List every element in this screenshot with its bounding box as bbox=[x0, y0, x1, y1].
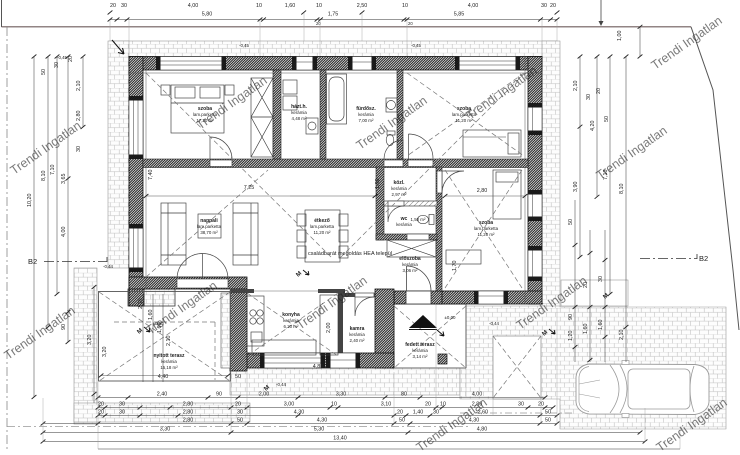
door bath from hall bbox=[384, 140, 403, 167]
outer wall: kitchen wing south bbox=[230, 353, 394, 368]
svg-text:20: 20 bbox=[98, 410, 104, 416]
door vestibule to hall bbox=[407, 234, 429, 240]
svg-text:-0,44: -0,44 bbox=[276, 382, 287, 387]
svg-text:11,20 m²: 11,20 m² bbox=[477, 232, 495, 237]
svg-text:7,10: 7,10 bbox=[50, 165, 56, 176]
desk mid-right bbox=[446, 250, 481, 264]
svg-text:1,40: 1,40 bbox=[413, 410, 424, 416]
small left bottom verticals bbox=[143, 294, 163, 382]
svg-text:5,30: 5,30 bbox=[314, 427, 325, 433]
bottom chains bbox=[43, 398, 680, 450]
svg-text:3,06 m²: 3,06 m² bbox=[403, 268, 418, 273]
svg-text:4,80: 4,80 bbox=[313, 364, 324, 370]
property boundary top line bbox=[2, 26, 692, 28]
svg-text:2,80: 2,80 bbox=[76, 111, 82, 122]
covered terrace floor (white) bbox=[394, 304, 466, 368]
dash line to car bbox=[460, 412, 574, 414]
svg-text:2,10: 2,10 bbox=[166, 336, 172, 347]
svg-text:11,20 m²: 11,20 m² bbox=[313, 230, 331, 235]
svg-text:30: 30 bbox=[76, 146, 82, 152]
svg-text:kerámia: kerámia bbox=[412, 348, 428, 353]
window bedroom2 east bbox=[528, 103, 542, 135]
svg-text:10: 10 bbox=[402, 3, 408, 9]
interior wall: kitchen / pantry bbox=[338, 293, 343, 357]
svg-text:családbarát megoldás HEA telep: családbarát megoldás HEA települ bbox=[308, 251, 392, 257]
outer wall: south of right wing bbox=[436, 291, 542, 304]
svg-text:20: 20 bbox=[316, 21, 321, 26]
north arrow on covered terrace bbox=[409, 315, 437, 328]
svg-text:38,70 m²: 38,70 m² bbox=[200, 230, 218, 235]
dining table bbox=[305, 210, 340, 262]
outer wall: north bbox=[129, 57, 542, 71]
svg-text:4,00: 4,00 bbox=[188, 3, 199, 9]
opening dining-kitchen bbox=[254, 289, 318, 293]
svg-text:13,40: 13,40 bbox=[333, 436, 347, 442]
svg-text:3,30: 3,30 bbox=[160, 427, 171, 433]
svg-text:4,00: 4,00 bbox=[468, 3, 479, 9]
svg-text:3,10: 3,10 bbox=[381, 402, 392, 408]
svg-text:kerámia: kerámia bbox=[358, 112, 374, 117]
in-plan dim lines bbox=[101, 196, 525, 376]
svg-text:20: 20 bbox=[98, 402, 104, 408]
window bath north bbox=[348, 57, 376, 71]
svg-text:2,00: 2,00 bbox=[259, 392, 270, 398]
terrace pillar bbox=[438, 354, 447, 364]
wardrobe with X bbox=[251, 78, 273, 157]
outer wall: west bbox=[129, 57, 143, 290]
bathtub bbox=[327, 74, 347, 124]
svg-text:50: 50 bbox=[545, 418, 551, 424]
window utility north bbox=[292, 57, 317, 71]
window bedroom1 north bbox=[156, 57, 226, 71]
property boundary left vertical bbox=[1, 0, 3, 27]
svg-text:1,75: 1,75 bbox=[328, 12, 339, 18]
svg-text:2,80: 2,80 bbox=[183, 402, 194, 408]
svg-text:90: 90 bbox=[216, 392, 222, 398]
svg-text:4,80: 4,80 bbox=[477, 427, 488, 433]
svg-text:-0,45: -0,45 bbox=[239, 43, 250, 48]
svg-text:-0,44: -0,44 bbox=[103, 264, 114, 269]
level marks bbox=[57, 43, 500, 387]
kitchen lower counter bbox=[252, 340, 316, 355]
brick paving: court + driveway field bbox=[460, 306, 726, 429]
svg-text:2,80: 2,80 bbox=[183, 410, 194, 416]
svg-text:10: 10 bbox=[440, 402, 446, 408]
window midroom east 2 bbox=[528, 246, 542, 281]
svg-text:2,10: 2,10 bbox=[619, 330, 625, 341]
svg-text:10: 10 bbox=[331, 402, 337, 408]
svg-text:3,90: 3,90 bbox=[573, 182, 579, 193]
svg-text:1,60: 1,60 bbox=[583, 324, 589, 335]
coffee table bbox=[198, 214, 221, 238]
bed 2 top-right bbox=[463, 130, 521, 157]
svg-text:30: 30 bbox=[586, 94, 592, 100]
inner leaf lines bbox=[129, 72, 542, 74]
svg-text:4,20: 4,20 bbox=[590, 121, 596, 132]
svg-text:3,20: 3,20 bbox=[102, 347, 108, 358]
svg-text:30: 30 bbox=[433, 410, 439, 416]
svg-text:3,65: 3,65 bbox=[61, 174, 67, 185]
kitchen counters bbox=[247, 296, 264, 346]
svg-text:3,14 m²: 3,14 m² bbox=[413, 354, 428, 359]
outer wall: pantry west / terrace wall bbox=[375, 289, 394, 368]
svg-text:20: 20 bbox=[235, 402, 241, 408]
svg-text:2,80: 2,80 bbox=[183, 418, 194, 424]
svg-text:5,85: 5,85 bbox=[454, 12, 465, 18]
svg-text:kerámia: kerámia bbox=[391, 186, 407, 191]
svg-text:30: 30 bbox=[518, 402, 524, 408]
svg-text:1,20: 1,20 bbox=[568, 331, 574, 342]
outer wall: east bbox=[528, 57, 542, 305]
bed 1 bbox=[171, 85, 224, 133]
french door living south bbox=[177, 254, 228, 289]
interior wall: bath / bedroom2 bbox=[397, 70, 403, 159]
svg-text:2,00: 2,00 bbox=[326, 323, 332, 334]
svg-text:10: 10 bbox=[256, 3, 262, 9]
svg-text:50: 50 bbox=[399, 418, 405, 424]
window bedroom2 north bbox=[455, 57, 520, 71]
white patch above driveway bbox=[561, 280, 628, 306]
door bedroom1 bbox=[210, 137, 232, 167]
outer wall: living room south bbox=[129, 277, 247, 289]
svg-text:30: 30 bbox=[119, 410, 125, 416]
svg-text:30: 30 bbox=[54, 62, 60, 68]
svg-text:2,80: 2,80 bbox=[477, 188, 488, 194]
opening hall top bbox=[384, 166, 408, 168]
svg-text:30: 30 bbox=[121, 3, 127, 9]
bath sink + wc bbox=[387, 101, 396, 110]
property stake leader bbox=[600, 0, 602, 25]
outer wall: kitchen wing west bbox=[230, 291, 247, 371]
svg-text:20: 20 bbox=[596, 88, 602, 94]
svg-text:2,10: 2,10 bbox=[76, 81, 82, 92]
interior wall: utility / bath bbox=[320, 70, 326, 159]
door wc bbox=[388, 201, 404, 222]
brick paving: band under open terrace bbox=[74, 403, 250, 422]
property dash line bottom bbox=[7, 426, 470, 428]
covered terrace edge bbox=[465, 304, 467, 368]
top-left eaves arrow bbox=[112, 40, 124, 54]
interior wall: wc north bbox=[384, 201, 437, 206]
brick paving: left eaves band bbox=[108, 41, 129, 268]
svg-text:7,25: 7,25 bbox=[244, 185, 255, 191]
vestibule wardrobe X bbox=[387, 240, 436, 257]
interior wall: dining / hall bbox=[376, 167, 384, 240]
svg-text:5,80: 5,80 bbox=[202, 12, 213, 18]
svg-text:4,48 m²: 4,48 m² bbox=[292, 116, 307, 121]
window kitchen south bbox=[260, 353, 325, 368]
svg-text:50: 50 bbox=[604, 116, 610, 122]
svg-text:50: 50 bbox=[235, 374, 241, 380]
svg-text:90: 90 bbox=[568, 314, 574, 320]
svg-text:3,00: 3,00 bbox=[284, 402, 295, 408]
white walkway in paving bbox=[493, 336, 541, 399]
svg-text:20: 20 bbox=[425, 402, 431, 408]
property boundary left dash-dot bbox=[6, 27, 8, 452]
sofa 1 bbox=[161, 203, 186, 265]
brick paving: band under kitchen wing bbox=[230, 367, 460, 395]
right chains bbox=[575, 27, 640, 362]
svg-text:kerámia: kerámia bbox=[291, 110, 307, 115]
svg-text:20: 20 bbox=[550, 3, 556, 9]
svg-text:20: 20 bbox=[397, 410, 403, 416]
svg-text:lam.parketta: lam.parketta bbox=[310, 224, 335, 229]
svg-text:4,30: 4,30 bbox=[294, 410, 305, 416]
eaves band SW corner bbox=[128, 289, 175, 306]
svg-text:1,70: 1,70 bbox=[452, 261, 458, 272]
interior wall: bedroom1 / utility bbox=[273, 70, 281, 159]
in-plan dimensions bbox=[158, 185, 488, 380]
svg-text:lam.parketta: lam.parketta bbox=[474, 226, 499, 231]
svg-text:30: 30 bbox=[119, 402, 125, 408]
bed 3 mid-right bbox=[493, 170, 521, 219]
svg-text:3,30: 3,30 bbox=[336, 392, 347, 398]
svg-text:8,10: 8,10 bbox=[619, 184, 625, 195]
svg-text:50: 50 bbox=[237, 418, 243, 424]
svg-text:2,97 m²: 2,97 m² bbox=[392, 192, 407, 197]
svg-text:4,30: 4,30 bbox=[317, 418, 328, 424]
brick paving: right eaves band bbox=[542, 41, 560, 307]
property boundary right diagonal bbox=[691, 27, 739, 330]
slope marker arrows M bbox=[136, 271, 610, 393]
brick paving: top eaves band bbox=[110, 41, 557, 57]
svg-text:kerámia: kerámia bbox=[349, 332, 365, 337]
svg-text:20: 20 bbox=[68, 56, 74, 62]
svg-text:B2: B2 bbox=[699, 254, 708, 263]
bottom extension lines bbox=[43, 305, 680, 449]
svg-text:30: 30 bbox=[541, 3, 547, 9]
svg-text:1,50 m²: 1,50 m² bbox=[411, 217, 426, 222]
svg-text:kerámia: kerámia bbox=[396, 222, 412, 227]
eaves strip west of kitchen wing bbox=[221, 293, 230, 368]
interior wall: hall / mid bedroom bbox=[436, 167, 442, 291]
top extension lines bbox=[110, 13, 557, 56]
svg-text:30: 30 bbox=[598, 276, 604, 282]
svg-text:1,60: 1,60 bbox=[285, 3, 296, 9]
outer wall: south of hall/entry bbox=[394, 291, 442, 304]
svg-text:2,10: 2,10 bbox=[573, 81, 579, 92]
interior wall: pantry north bbox=[343, 293, 375, 297]
brick paving: strip left of open terrace bbox=[74, 268, 97, 424]
door mid bedroom bbox=[437, 171, 464, 193]
window living west bbox=[129, 224, 143, 272]
window bedroom1 west bbox=[129, 96, 143, 159]
svg-text:20: 20 bbox=[110, 3, 116, 9]
svg-text:7,00 m²: 7,00 m² bbox=[359, 118, 374, 123]
svg-text:1,00: 1,00 bbox=[375, 179, 381, 190]
utility appliances bbox=[283, 80, 297, 94]
svg-text:50: 50 bbox=[545, 410, 551, 416]
svg-text:±0,00: ±0,00 bbox=[445, 315, 457, 320]
window midroom south bbox=[474, 291, 508, 304]
svg-text:30: 30 bbox=[237, 410, 243, 416]
open terrace outline bbox=[99, 292, 231, 382]
svg-text:3,20: 3,20 bbox=[87, 335, 93, 346]
sofa 2 bbox=[233, 203, 258, 265]
interior wall: main E-W spine y159 bbox=[143, 159, 528, 168]
svg-text:-0,44: -0,44 bbox=[489, 321, 500, 326]
svg-text:20: 20 bbox=[408, 21, 413, 26]
svg-text:80: 80 bbox=[401, 392, 407, 398]
svg-text:50: 50 bbox=[41, 69, 47, 75]
entry door bbox=[406, 266, 431, 304]
window midroom east 1 bbox=[528, 190, 542, 221]
B2 section marks bbox=[28, 254, 708, 266]
svg-text:10: 10 bbox=[316, 3, 322, 9]
door pantry south bbox=[326, 353, 360, 368]
svg-text:7,40: 7,40 bbox=[148, 170, 154, 181]
interior wall: kitchen north segs bbox=[230, 289, 254, 293]
interior wall: wc south / vestibule north bbox=[376, 234, 437, 240]
svg-text:10,20: 10,20 bbox=[27, 194, 33, 208]
svg-text:4,00: 4,00 bbox=[61, 227, 67, 238]
svg-text:1,60: 1,60 bbox=[598, 320, 604, 331]
svg-text:2,40 m²: 2,40 m² bbox=[350, 338, 365, 343]
svg-text:2,40: 2,40 bbox=[157, 392, 168, 398]
svg-text:kerámia: kerámia bbox=[161, 359, 177, 364]
svg-text:lam.parketta: lam.parketta bbox=[197, 224, 222, 229]
door pantry from hall bbox=[355, 293, 374, 316]
left chains bbox=[34, 57, 94, 404]
top chain row1 bbox=[110, 19, 557, 21]
svg-text:B2: B2 bbox=[28, 257, 37, 266]
svg-text:8,10: 8,10 bbox=[41, 171, 47, 182]
svg-text:2,50: 2,50 bbox=[357, 3, 368, 9]
svg-text:kerámia: kerámia bbox=[402, 262, 418, 267]
door bedroom2 from hall bbox=[408, 134, 433, 167]
svg-text:-0,45: -0,45 bbox=[411, 43, 422, 48]
svg-text:1,00: 1,00 bbox=[617, 31, 623, 42]
svg-text:50: 50 bbox=[568, 219, 574, 225]
